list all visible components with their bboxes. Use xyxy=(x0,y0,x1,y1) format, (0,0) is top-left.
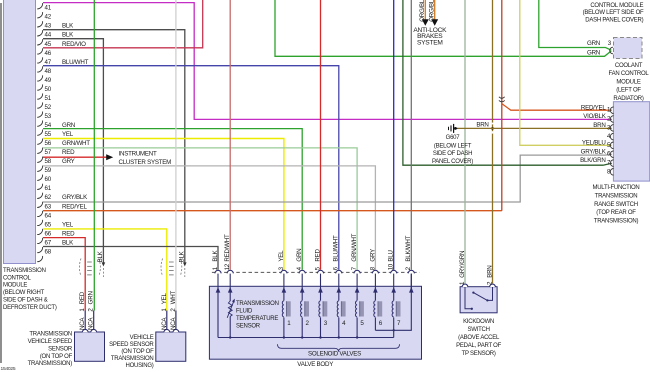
junction dot solenoid 7 return xyxy=(393,329,395,331)
svg-text:10: 10 xyxy=(388,263,395,270)
svg-text:SYSTEM: SYSTEM xyxy=(417,40,443,47)
svg-text:BRN: BRN xyxy=(593,122,605,129)
svg-text:SWITCH: SWITCH xyxy=(468,327,490,333)
multi-function switch pin 2 hook xyxy=(610,116,613,123)
svg-text:NCA: NCA xyxy=(79,317,86,330)
svg-text:48: 48 xyxy=(45,68,52,75)
valve body pin 4 inner lead and arrow xyxy=(301,274,303,293)
vehicle speed sensor pin 2 bump xyxy=(173,329,179,332)
svg-text:(TOP REAR OF: (TOP REAR OF xyxy=(596,210,636,216)
valve body connector bump pin 7 xyxy=(354,270,360,273)
transmission vehicle speed sensor pin 2 inner lead xyxy=(93,311,95,330)
TCM pin 45 terminal hook xyxy=(37,48,42,54)
wire RED from TCM pin 57 to instrument cluster system xyxy=(43,156,108,158)
TCM pin 61 terminal hook xyxy=(37,193,42,199)
svg-text:NCA: NCA xyxy=(88,317,95,330)
solenoid valve 4 coil xyxy=(338,292,340,301)
svg-text:RED: RED xyxy=(314,249,321,262)
TCM pin 41 terminal hook xyxy=(37,12,42,18)
transmission vehicle speed sensor pin 2 bump xyxy=(91,329,97,332)
solenoid valve 2 coil xyxy=(301,292,303,301)
solenoid valve 7 coil xyxy=(393,292,395,301)
svg-text:SENSOR: SENSOR xyxy=(48,346,73,352)
TCM pin 60 terminal hook xyxy=(37,184,42,190)
wire RED from top to valve body pin 5 xyxy=(320,0,322,270)
svg-text:INSTRUMENT: INSTRUMENT xyxy=(119,151,158,158)
svg-text:GRN: GRN xyxy=(587,40,600,47)
svg-text:VALVE BODY: VALVE BODY xyxy=(297,361,333,368)
wire RED/VIO from TCM pin 45 up to top edge xyxy=(43,0,203,48)
kickdown switch contacts xyxy=(465,287,471,309)
junction dot solenoid to ground bus xyxy=(338,336,340,338)
multi-function switch pin 5 hook xyxy=(610,142,613,149)
valve body connector bump pin 1 xyxy=(215,270,221,273)
svg-text:56: 56 xyxy=(45,140,52,147)
wire BLK from TCM pin 67 to valve body pin 1 xyxy=(43,247,218,270)
svg-text:43: 43 xyxy=(45,23,52,30)
wire GRY/GRN from top to kickdown switch pin 1 xyxy=(464,0,466,283)
svg-text:PEDAL, PART OF: PEDAL, PART OF xyxy=(456,343,501,349)
wire VIO/BLK from TCM pin 40 to multi-function switch pin 2 xyxy=(43,3,612,120)
svg-text:FLUID: FLUID xyxy=(236,308,253,314)
svg-text:YEL/BLU: YEL/BLU xyxy=(582,139,606,146)
svg-text:51: 51 xyxy=(45,95,52,102)
svg-text:55: 55 xyxy=(45,131,52,138)
valve body pin 8 inner lead and arrow xyxy=(374,274,376,293)
svg-text:BLU/WHT: BLU/WHT xyxy=(62,59,89,66)
svg-text:PANEL COVER): PANEL COVER) xyxy=(432,159,473,165)
svg-text:12: 12 xyxy=(224,263,231,270)
wire YEL from TCM pin 55 to valve body pin 3 xyxy=(43,139,284,270)
wire BRN from ground G607 to multi-function switch pin 3 xyxy=(457,127,612,129)
svg-text:57: 57 xyxy=(45,149,52,156)
svg-text:64: 64 xyxy=(45,212,52,219)
transmission vehicle speed sensor pin 1 inner lead xyxy=(84,311,86,330)
svg-text:KICKDOWN: KICKDOWN xyxy=(463,319,494,325)
svg-text:BLK: BLK xyxy=(62,239,74,246)
valve body pin 1 ground lead xyxy=(217,292,219,338)
multi-function switch pin 3 hook xyxy=(610,125,613,132)
svg-text:VEHICLE: VEHICLE xyxy=(130,335,154,341)
TCM pin 64 terminal hook xyxy=(37,220,42,226)
svg-text:TRANSMISSION: TRANSMISSION xyxy=(595,194,638,200)
vehicle speed sensor pin 1 bump xyxy=(164,329,170,332)
svg-text:62: 62 xyxy=(45,194,52,201)
svg-text:HOUSING): HOUSING) xyxy=(126,363,154,369)
svg-text:DEFROSTER DUCT): DEFROSTER DUCT) xyxy=(3,305,57,311)
wire GRN from top to coolant fan control module pin 3 upper xyxy=(539,0,612,50)
svg-text:44: 44 xyxy=(45,32,52,39)
valve body connector bump pin 8 xyxy=(372,270,378,273)
svg-text:49: 49 xyxy=(45,77,52,84)
svg-text:YEL: YEL xyxy=(62,221,74,228)
svg-text:MULTI-FUNCTION: MULTI-FUNCTION xyxy=(592,185,639,191)
svg-text:(ABOVE ACCEL: (ABOVE ACCEL xyxy=(458,335,500,341)
svg-text:RED/YEL: RED/YEL xyxy=(581,104,607,111)
ground symbol G607 xyxy=(456,127,457,129)
svg-text:DASH PANEL COVER): DASH PANEL COVER) xyxy=(585,18,643,24)
svg-text:YEL: YEL xyxy=(278,250,285,262)
wire BLK from TCM pin 43 to vehicle speed sensor shield drain xyxy=(43,30,185,264)
svg-text:SIDE OF DASH &: SIDE OF DASH & xyxy=(3,298,48,304)
valve body connector bump pin 10 xyxy=(391,270,397,273)
TCM pin 42 terminal hook xyxy=(37,21,42,27)
svg-text:GRY/GRN: GRY/GRN xyxy=(459,251,466,278)
wire BLU from top to valve body pin 10 xyxy=(393,0,395,270)
arrowhead anti-lock brakes right xyxy=(431,19,438,26)
svg-text:FAN CONTROL: FAN CONTROL xyxy=(609,71,650,77)
multi-function switch pin 1 hook xyxy=(610,107,613,114)
vehicle speed sensor pin 2 inner lead xyxy=(175,311,177,330)
svg-text:VEHICLE SPEED: VEHICLE SPEED xyxy=(28,339,73,345)
TCM pin 44 terminal hook xyxy=(37,39,42,45)
multi-function transmission range switch box xyxy=(613,102,649,181)
svg-text:ORG/BLK: ORG/BLK xyxy=(428,0,435,22)
svg-text:GRN: GRN xyxy=(296,249,303,262)
wire ORG to anti-lock brakes system left xyxy=(424,0,426,20)
solenoid lower lead xyxy=(338,318,340,338)
TCM pin 53 terminal hook xyxy=(37,121,42,127)
valve body connector bump pin 12 xyxy=(227,270,233,273)
svg-text:TRANSMISSION: TRANSMISSION xyxy=(236,301,279,307)
kickdown switch pin 1 bump xyxy=(462,284,468,287)
wire RED/YEL from TCM pin 63 to splice riser xyxy=(43,210,502,212)
svg-text:GRN/WHT: GRN/WHT xyxy=(62,140,90,147)
solenoid lower lead xyxy=(301,318,303,338)
wire GRY from TCM pin 58 to valve body pin 8 xyxy=(43,166,375,270)
transmission control module (TCM) connector box xyxy=(4,0,36,264)
svg-text:58: 58 xyxy=(45,158,52,165)
junction dot solenoid to ground bus xyxy=(356,336,358,338)
svg-text:TP SENSOR): TP SENSOR) xyxy=(462,351,496,357)
svg-text:GRY: GRY xyxy=(369,249,376,262)
wire BRN from top to kickdown switch pin 2 xyxy=(492,0,494,283)
TCM pin 50 terminal hook xyxy=(37,93,42,99)
svg-text:GRY/BLK: GRY/BLK xyxy=(581,148,607,155)
svg-text:63: 63 xyxy=(45,203,52,210)
vehicle speed sensor pin 1 inner lead xyxy=(166,311,168,330)
multi-function switch pin 4 hook xyxy=(610,133,613,140)
svg-text:NCA: NCA xyxy=(170,317,177,330)
wire YEL/BLU from top to multi-function switch pin 5 xyxy=(520,0,612,145)
svg-text:TRANSMISSION: TRANSMISSION xyxy=(111,356,154,362)
svg-text:RED/WHT: RED/WHT xyxy=(224,234,231,262)
TCM pin 65 terminal hook xyxy=(37,229,42,235)
coolant fan pin 3 hook xyxy=(610,47,613,54)
valve body connector dashed line xyxy=(212,271,420,273)
solenoid valve 6 coil xyxy=(374,292,376,301)
svg-text:(ON TOP OF: (ON TOP OF xyxy=(121,349,154,355)
valve body pin 1 inner lead and arrow xyxy=(217,274,219,293)
svg-text:GRN: GRN xyxy=(88,291,95,304)
valve body connector bump pin 6 xyxy=(336,270,342,273)
svg-text:61: 61 xyxy=(45,185,52,192)
TCM pin 58 terminal hook xyxy=(37,166,42,172)
svg-text:SOLENOID VALVES: SOLENOID VALVES xyxy=(308,351,361,358)
svg-text:COOLANT: COOLANT xyxy=(615,63,643,69)
svg-text:BLK: BLK xyxy=(62,23,74,30)
arrowhead BLK drain VSS xyxy=(183,262,187,266)
wire RED/YEL riser from top to TCM pin 63 corner xyxy=(501,0,503,211)
svg-text:BRN: BRN xyxy=(487,265,494,277)
svg-text:BLU/WHT: BLU/WHT xyxy=(333,235,340,262)
wire BLK from TCM pin 44 to transmission vehicle speed sensor shield drain xyxy=(43,39,103,264)
TCM pin 56 terminal hook xyxy=(37,148,42,154)
TCM pin 47 terminal hook xyxy=(37,66,42,72)
wire BLU/WHT from TCM pin 47 to valve body pin 6 xyxy=(43,66,339,270)
TCM pin 59 terminal hook xyxy=(37,175,42,181)
arrowhead BLK drain TVSS xyxy=(102,262,106,266)
solenoid valves brace xyxy=(278,344,400,351)
svg-text:GRN: GRN xyxy=(587,50,600,57)
svg-text:BLK/GRN: BLK/GRN xyxy=(580,157,605,164)
svg-text:WHT: WHT xyxy=(170,290,177,304)
svg-text:65: 65 xyxy=(45,221,52,228)
wire BLK/GRN from top to multi-function switch pin 7 xyxy=(403,0,612,165)
svg-text:TEMPERATURE: TEMPERATURE xyxy=(236,316,278,322)
TCM pin 67 terminal hook xyxy=(37,247,42,253)
solenoid lower lead xyxy=(283,318,285,338)
svg-text:TRANSMISSION): TRANSMISSION) xyxy=(594,218,639,224)
TCM pin 63 terminal hook xyxy=(37,211,42,217)
vehicle speed sensor shield symbol xyxy=(161,259,163,277)
valve body connector bump pin 4 xyxy=(299,270,305,273)
vehicle speed sensor box xyxy=(156,332,186,361)
svg-text:BLK: BLK xyxy=(212,250,219,262)
multi-function switch pin 6 hook xyxy=(610,151,613,158)
valve body pin 2 inner lead and arrow xyxy=(410,274,412,293)
TCM pin 43 terminal hook xyxy=(37,30,42,36)
solenoid 6-7 return line to valve body pin 2 xyxy=(375,274,411,331)
TFT sensor lower lead xyxy=(229,316,231,337)
svg-text:GRY/BLK: GRY/BLK xyxy=(62,194,88,201)
svg-text:RADIATOR): RADIATOR) xyxy=(613,96,643,102)
svg-text:NCA: NCA xyxy=(161,317,168,330)
svg-text:(BELOW LEFT: (BELOW LEFT xyxy=(434,143,472,149)
junction dot solenoid to ground bus xyxy=(283,336,285,338)
junction dot solenoid to ground bus xyxy=(319,336,321,338)
svg-text:46: 46 xyxy=(45,50,52,57)
TCM pin 57 terminal hook xyxy=(37,157,42,163)
svg-text:CONTROL MODULE: CONTROL MODULE xyxy=(590,3,643,9)
valve body pin 7 inner lead and arrow xyxy=(356,274,358,293)
wire RED from TCM pin 66 to transmission vehicle speed sensor pin 1 xyxy=(43,238,85,311)
TCM pin 68 terminal hook xyxy=(37,256,42,262)
svg-text:VIO/BLK: VIO/BLK xyxy=(583,113,606,120)
TCM pin 46 terminal hook xyxy=(37,57,42,63)
svg-text:60: 60 xyxy=(45,176,52,183)
svg-text:MODULE: MODULE xyxy=(616,79,640,85)
valve body connector bump pin 5 xyxy=(317,270,323,273)
svg-text:RED: RED xyxy=(79,291,86,304)
svg-text:GRN/WHT: GRN/WHT xyxy=(351,233,358,261)
svg-text:BLK: BLK xyxy=(97,250,104,262)
svg-text:(BELOW LEFT SIDE OF: (BELOW LEFT SIDE OF xyxy=(583,10,644,16)
svg-text:CLUSTER SYSTEM: CLUSTER SYSTEM xyxy=(119,159,172,166)
solenoid valve 3 coil xyxy=(320,292,322,301)
svg-text:ORG/BLK: ORG/BLK xyxy=(419,0,426,22)
splice symbol on RED/YEL riser xyxy=(499,97,505,98)
TCM pin 48 terminal hook xyxy=(37,75,42,81)
transmission fluid temperature sensor thermistor xyxy=(228,301,232,316)
svg-text:YEL: YEL xyxy=(161,293,168,305)
svg-text:TRANSMISSION): TRANSMISSION) xyxy=(28,361,73,367)
TCM pin 54 terminal hook xyxy=(37,130,42,136)
transmission vehicle speed sensor box xyxy=(75,332,105,361)
valve body connector bump pin 2 xyxy=(408,270,414,273)
solenoid lower lead xyxy=(320,318,322,338)
svg-text:RED: RED xyxy=(62,149,75,156)
valve body pin 12 inner lead and arrow xyxy=(229,274,231,293)
svg-text:G607: G607 xyxy=(446,135,461,141)
arrowhead to instrument cluster system xyxy=(106,154,113,160)
svg-text:YEL: YEL xyxy=(62,131,74,138)
solenoid valve 5 coil xyxy=(356,292,358,301)
svg-text:42: 42 xyxy=(45,14,52,21)
svg-text:BLU: BLU xyxy=(388,250,395,261)
wire GRN from top to coolant fan control module pin 3 lower xyxy=(275,0,611,56)
TCM pin 49 terminal hook xyxy=(37,84,42,90)
kickdown switch box xyxy=(460,287,497,313)
junction dot TFT sensor to ground bus xyxy=(229,336,231,338)
coolant fan control module box xyxy=(614,38,643,59)
valve body ground bus xyxy=(218,330,394,337)
solenoid lower lead xyxy=(356,318,358,338)
junction dot solenoid to ground bus xyxy=(301,336,303,338)
valve body connector bump pin 3 xyxy=(281,270,287,273)
wire ORG to anti-lock brakes system right xyxy=(434,0,436,20)
solenoid 7 lower lead to return line xyxy=(393,318,395,331)
svg-text:SPEED SENSOR: SPEED SENSOR xyxy=(109,342,154,348)
TCM pin 52 terminal hook xyxy=(37,112,42,118)
transmission vehicle speed sensor shield symbol xyxy=(79,259,81,277)
svg-text:(BELOW RIGHT: (BELOW RIGHT xyxy=(3,290,45,296)
svg-text:RED/YEL: RED/YEL xyxy=(62,203,88,210)
svg-text:BLK: BLK xyxy=(179,250,186,262)
wire GRN/WHT from TCM pin 56 to valve body pin 7 xyxy=(43,148,357,270)
solenoid valve 1 coil xyxy=(283,292,285,301)
wire GRY/BLK from TCM pin 62 to multi-function switch pin 6 xyxy=(43,154,612,202)
svg-text:47: 47 xyxy=(45,59,52,66)
svg-text:52: 52 xyxy=(45,104,52,111)
kickdown switch pin 2 bump xyxy=(490,284,496,287)
valve body pin 5 inner lead and arrow xyxy=(320,274,322,293)
valve body pin 3 inner lead and arrow xyxy=(283,274,285,293)
svg-text:53: 53 xyxy=(45,113,52,120)
TFT sensor lead xyxy=(229,292,231,301)
svg-text:BLK: BLK xyxy=(62,32,74,39)
arrowhead anti-lock brakes left xyxy=(422,19,429,26)
svg-text:(ON TOP OF: (ON TOP OF xyxy=(40,354,73,360)
svg-text:BRN: BRN xyxy=(476,121,488,128)
svg-text:RED/VIO: RED/VIO xyxy=(62,41,86,48)
svg-text:68: 68 xyxy=(45,248,52,255)
svg-text:SENSOR: SENSOR xyxy=(236,323,261,329)
svg-text:TRANSMISSION: TRANSMISSION xyxy=(3,268,46,274)
valve body pin 10 inner lead and arrow xyxy=(393,274,395,293)
wire RED/WHT from top to valve body pin 12 xyxy=(229,0,231,270)
svg-text:SIDE OF DASH: SIDE OF DASH xyxy=(433,151,472,157)
svg-text:66: 66 xyxy=(45,230,52,237)
TCM pin 62 terminal hook xyxy=(37,202,42,208)
wire RED/YEL branch to multi-function switch pin 1 xyxy=(502,104,612,111)
svg-text:59: 59 xyxy=(45,167,52,174)
svg-text:BLK/WHT: BLK/WHT xyxy=(405,235,412,261)
multi-function switch pin 7 hook xyxy=(610,160,613,167)
solenoid 6 lower lead to return line xyxy=(374,318,376,331)
TCM pin 66 terminal hook xyxy=(37,238,42,244)
svg-text:50: 50 xyxy=(45,86,52,93)
svg-text:RANGE SWITCH: RANGE SWITCH xyxy=(594,202,638,208)
svg-text:(LEFT OF: (LEFT OF xyxy=(616,88,641,94)
wire WHT from top to vehicle speed sensor pin 2 xyxy=(175,0,177,311)
valve body box xyxy=(209,286,421,359)
wire GRN from top to transmission vehicle speed sensor pin 2 xyxy=(93,0,95,311)
TCM pin 40 terminal hook xyxy=(37,3,42,9)
TCM pin 51 terminal hook xyxy=(37,102,42,108)
transmission vehicle speed sensor pin 1 bump xyxy=(82,329,88,332)
svg-text:45: 45 xyxy=(45,41,52,48)
wire YEL from TCM pin 65 to vehicle speed sensor pin 1 xyxy=(43,229,167,311)
svg-text:154025: 154025 xyxy=(1,366,16,372)
wire GRN from TCM pin 54 to valve body pin 4 xyxy=(43,129,302,270)
multi-function switch pin 8 hook xyxy=(610,169,613,176)
svg-text:41: 41 xyxy=(45,5,52,12)
wire BLK/WHT from top to valve body pin 2 xyxy=(410,0,412,270)
svg-text:MODULE: MODULE xyxy=(3,283,27,289)
TCM pin 55 terminal hook xyxy=(37,139,42,145)
svg-text:GRY: GRY xyxy=(62,158,75,165)
svg-text:RED: RED xyxy=(62,230,75,237)
svg-text:TRANSMISSION: TRANSMISSION xyxy=(29,331,72,337)
svg-text:CONTROL: CONTROL xyxy=(3,275,31,281)
valve body pin 6 inner lead and arrow xyxy=(338,274,340,293)
junction dot BRN xyxy=(491,127,494,130)
wire BRN dashed gaps at junction xyxy=(492,123,494,125)
svg-text:67: 67 xyxy=(45,239,52,246)
